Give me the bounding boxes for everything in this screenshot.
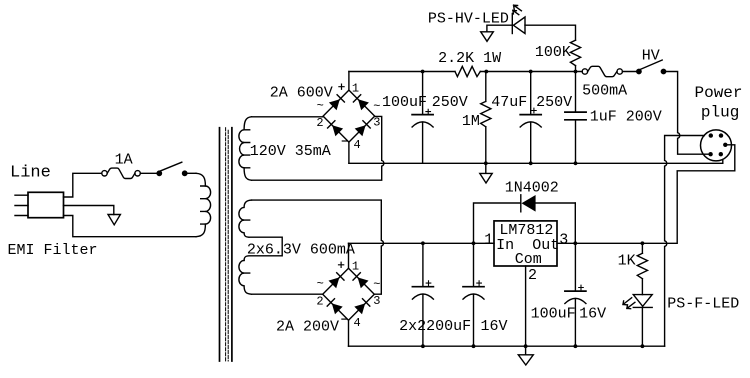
- svg-text:16V: 16V: [579, 306, 606, 323]
- resistor R2 100K: [570, 40, 580, 65]
- LED PS-F-LED: [623, 295, 652, 309]
- svg-text:500mA: 500mA: [582, 83, 627, 100]
- svg-text:2x6.3V 600mA: 2x6.3V 600mA: [247, 242, 355, 259]
- switch S1: [157, 162, 187, 175]
- resistor R1 2.2K 1W: [455, 66, 480, 76]
- ground bus bottom: [349, 345, 665, 347]
- svg-text:1uF 200V: 1uF 200V: [590, 108, 662, 125]
- junction dots Out bus: [573, 241, 644, 245]
- wire box to fuse: [64, 173, 102, 197]
- ground at PS-HV-LED: [481, 32, 494, 42]
- BR2 minus mark: [342, 318, 347, 320]
- BR2 diode top-left: [329, 273, 345, 289]
- wire fuse to switch: [140, 172, 157, 174]
- svg-text:1N4002: 1N4002: [505, 179, 559, 196]
- transformer T1 secondary 120V winding: [239, 117, 252, 180]
- HV+ top bus: [349, 71, 455, 73]
- wire BR1 vertex4 down to HV- bus: [348, 142, 350, 163]
- BR2 diode bottom-right: [354, 299, 370, 315]
- svg-text:1: 1: [352, 259, 359, 273]
- svg-text:2.2K 1W: 2.2K 1W: [438, 50, 501, 67]
- svg-text:3: 3: [373, 116, 380, 130]
- svg-text:4: 4: [354, 138, 361, 152]
- svg-text:250V: 250V: [432, 94, 468, 111]
- BR1 diode bottom-right: [355, 121, 371, 137]
- junction dots In bus: [421, 241, 475, 245]
- svg-text:~: ~: [317, 99, 324, 113]
- svg-text:~: ~: [373, 278, 380, 292]
- regulator U1 LM7812: [494, 221, 557, 266]
- HV+ bus after R1: [480, 71, 582, 73]
- junction dots HV- bus: [484, 161, 577, 165]
- svg-text:2: 2: [528, 267, 537, 284]
- BR2 labels: [316, 259, 380, 330]
- fuse F2 500mA: [582, 66, 622, 76]
- capacitor C1 100uF 250V: [412, 72, 433, 164]
- wire switch HV to plug, down with hop over H1: [665, 72, 708, 155]
- svg-text:100uF: 100uF: [531, 306, 576, 323]
- secondary 6.3V stubs: [244, 220, 250, 273]
- transformer T1 secondary 6.3V winding upper: [239, 200, 252, 237]
- svg-text:4: 4: [354, 316, 361, 330]
- wire 100K to bus: [575, 66, 577, 72]
- fuse F1 1A: [102, 168, 141, 178]
- plug pins: [708, 133, 727, 156]
- wire LED to ground bus: [641, 307, 643, 346]
- 12V In bus: [349, 242, 495, 244]
- svg-text:2A 200V: 2A 200V: [276, 318, 339, 335]
- capacitor C4 2200uF 16V first: [412, 243, 433, 346]
- svg-text:250V: 250V: [536, 94, 572, 111]
- svg-text:plug: plug: [701, 103, 739, 121]
- junction dots ground bus: [421, 344, 644, 348]
- LED PS-HV-LED: [512, 5, 525, 33]
- svg-text:2: 2: [316, 116, 323, 130]
- svg-text:EMI Filter: EMI Filter: [8, 242, 98, 259]
- BR2 diode bottom-left: [327, 299, 343, 315]
- svg-text:120V 35mA: 120V 35mA: [250, 143, 331, 160]
- transformer T1 primary winding: [196, 173, 211, 236]
- BR1 diode bottom-left: [328, 121, 344, 137]
- svg-text:~: ~: [317, 277, 324, 291]
- junction dots top bus: [421, 70, 578, 74]
- BR2 diode top-right: [353, 273, 369, 289]
- ground at Com: [518, 346, 533, 365]
- svg-text:1A: 1A: [115, 152, 133, 169]
- capacitor C3 1uF 200V: [565, 72, 586, 164]
- bridge rectifier BR1 2A 600V diamond: [323, 90, 375, 142]
- BR1 diode top-left: [329, 95, 345, 111]
- svg-text:100uF: 100uF: [382, 94, 427, 111]
- wire BR2 vertex4 down to ground bus: [348, 320, 350, 346]
- wire secondary2 bottom to BR2 vertex2: [252, 293, 323, 295]
- secondary 120V stubs: [244, 130, 250, 168]
- transformer core: [220, 128, 232, 361]
- HV- bus: [349, 160, 723, 164]
- wire ground bus up to plug pin1 with hops: [665, 136, 705, 347]
- capacitor C6 100uF 16V: [565, 243, 586, 346]
- resistor R3 1M: [481, 72, 491, 164]
- capacitor C5 2200uF 16V second: [463, 243, 484, 346]
- wire BR1 vertex1 up to HV+ bus: [348, 72, 350, 91]
- svg-text:1M: 1M: [462, 113, 480, 130]
- ground HV- bus: [480, 163, 492, 183]
- wire secondary2 top, right and down to BR2 vertex3 with hop: [252, 200, 384, 294]
- BR1 plus mark: [339, 84, 344, 89]
- svg-text:16V: 16V: [481, 318, 508, 335]
- primary winding stubs: [201, 186, 206, 224]
- wire primary bottom to EMI box: [64, 216, 197, 237]
- wire Com to ground bus: [525, 266, 527, 346]
- svg-text:HV: HV: [642, 47, 660, 64]
- svg-text:2: 2: [316, 294, 323, 308]
- 12V Out bus: [557, 145, 735, 244]
- BR1 diode top-right: [353, 95, 369, 111]
- EMI filter plug prongs: [15, 195, 28, 215]
- wire switch to primary: [187, 172, 196, 174]
- wire fuse to switch HV: [623, 71, 637, 73]
- switch S2 HV: [637, 60, 666, 74]
- svg-text:1: 1: [484, 231, 493, 248]
- diode D1 1N4002 bypass: [474, 195, 576, 244]
- svg-text:1: 1: [352, 81, 359, 95]
- BR2 plus mark: [339, 262, 344, 267]
- bridge rectifier BR2 2A 200V diamond: [323, 268, 375, 320]
- secondary 6.3V center tab: [244, 237, 282, 260]
- resistor R4 1K: [637, 243, 647, 294]
- wire ground to LED: [487, 25, 512, 32]
- wire secondary1 top to bridge1: [252, 116, 324, 118]
- wire secondary1 bottom, up to bridge1 vertex3 with hop: [252, 116, 384, 180]
- EMI filter box: [28, 192, 64, 217]
- transformer T1 secondary 6.3V winding lower: [239, 260, 252, 294]
- svg-text:Com: Com: [515, 251, 542, 268]
- BR1 minus mark: [342, 140, 347, 142]
- wire EMI box middle to ground: [64, 206, 114, 215]
- wire BR2 vertex1 up to 12V In bus: [348, 243, 350, 268]
- svg-text:~: ~: [373, 100, 380, 114]
- svg-text:PS-F-LED: PS-F-LED: [667, 296, 739, 313]
- ground EMI: [108, 215, 120, 225]
- svg-text:Line: Line: [10, 163, 51, 182]
- svg-text:2x2200uF: 2x2200uF: [399, 318, 471, 335]
- svg-text:In: In: [496, 237, 514, 254]
- svg-text:3: 3: [559, 231, 568, 248]
- svg-text:1K: 1K: [618, 253, 636, 270]
- power plug connector: [701, 130, 732, 161]
- svg-text:100K: 100K: [535, 44, 571, 61]
- BR1 labels: [316, 81, 380, 152]
- capacitor C2 47uF 250V: [520, 72, 541, 164]
- wire LED to 100K corner: [525, 25, 576, 40]
- svg-text:Power: Power: [695, 84, 743, 102]
- svg-text:3: 3: [373, 294, 380, 308]
- svg-text:47uF: 47uF: [491, 94, 527, 111]
